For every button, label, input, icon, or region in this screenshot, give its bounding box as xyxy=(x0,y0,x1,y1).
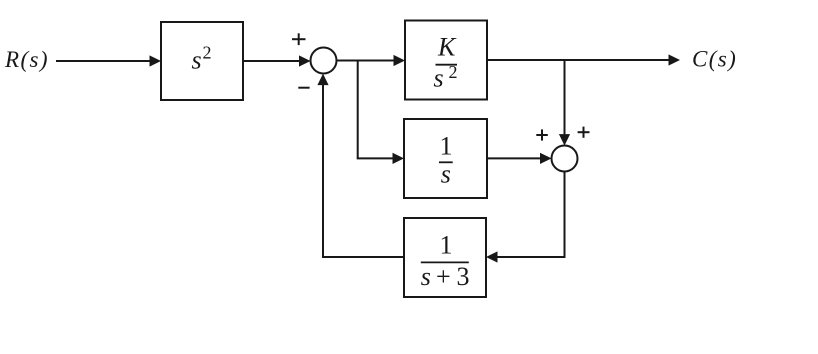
summing junction S2 xyxy=(552,146,578,172)
wire block G1 to summing junction S1 xyxy=(243,55,311,66)
svg-text:s: s xyxy=(434,64,444,93)
value label K/s^2 of block G2 xyxy=(434,32,458,92)
wire summing junction S1 to block G2 xyxy=(337,55,406,66)
svg-text:s: s xyxy=(192,45,202,74)
svg-text:1: 1 xyxy=(440,132,453,161)
wire input R(s) to block G1 xyxy=(56,55,161,66)
plus sign at S2 top-left input xyxy=(536,129,548,140)
block G1 s^2 xyxy=(161,22,243,100)
svg-text:s: s xyxy=(441,160,451,189)
plus sign at S2 top-right input xyxy=(578,127,590,138)
summing junction S1 xyxy=(311,48,337,74)
block G3 1/s xyxy=(404,119,487,198)
wire summing junction S2 down and left into block G4 xyxy=(486,172,566,263)
svg-text:3: 3 xyxy=(457,262,470,291)
value label s^2 of block G1 xyxy=(192,43,212,75)
svg-text:s: s xyxy=(421,262,431,291)
svg-text:+: + xyxy=(436,262,451,291)
wire block G3 to summing junction S2 xyxy=(487,153,552,164)
wire block G2 to output C(s) xyxy=(487,54,680,65)
svg-text:2: 2 xyxy=(203,43,212,63)
plus sign at S1 input xyxy=(292,33,306,45)
value label 1/(s+3) of block G4 xyxy=(421,231,470,291)
svg-text:2: 2 xyxy=(449,62,458,82)
svg-text:K: K xyxy=(437,32,457,61)
wire feedback block G4 to summing junction S1 xyxy=(317,74,404,258)
minus sign at S1 feedback input xyxy=(298,87,309,89)
wire branch down to block G3 xyxy=(357,61,404,165)
block G4 1/(s+3) xyxy=(404,218,486,297)
wire takeoff down into summing junction S2 xyxy=(559,60,570,146)
svg-text:1: 1 xyxy=(440,231,453,260)
svg-text:R(s): R(s) xyxy=(4,47,49,72)
value label 1/s of block G3 xyxy=(439,132,453,189)
svg-text:C(s): C(s) xyxy=(692,47,737,72)
block G2 K/s^2 xyxy=(405,21,487,100)
